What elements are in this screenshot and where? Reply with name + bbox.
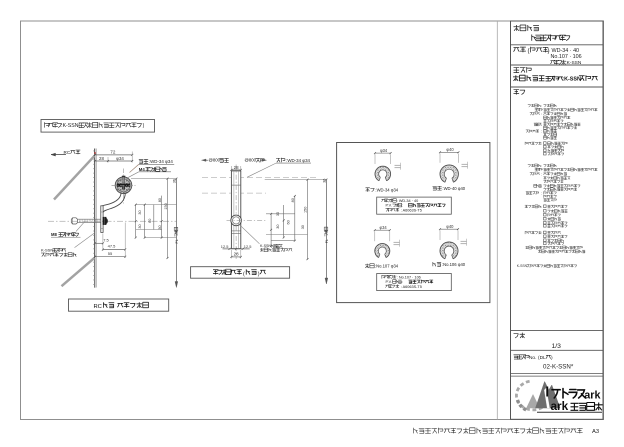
logo company name atlas-ark: [552, 390, 560, 398]
svg-text::: :: [541, 205, 542, 209]
handrail centerline dashed lower: [202, 192, 266, 194]
bracket saddle dark bar: [117, 184, 130, 187]
svg-text:ark: ark: [551, 399, 569, 413]
spec color checklist made-to-order: [544, 231, 547, 234]
svg-text:30: 30: [138, 210, 142, 214]
svg-text:): ): [548, 47, 550, 54]
saddle lower lug: [122, 187, 125, 190]
svg-text::: :: [541, 142, 542, 146]
svg-text:28: 28: [99, 156, 104, 161]
svg-text:28: 28: [234, 252, 239, 257]
svg-text::: :: [541, 172, 542, 176]
svg-text:φ34: φ34: [116, 156, 124, 161]
logo A mountain: [536, 382, 561, 409]
svg-text:02-K-SSN*: 02-K-SSN*: [543, 364, 574, 371]
center view title box: bracket front view: [191, 267, 290, 279]
svg-text::WD-34 φ34: :WD-34 φ34: [286, 158, 310, 163]
left view title box: RC shitaji installation section: [69, 299, 169, 311]
svg-text:P.V.: P.V.: [386, 204, 392, 208]
svg-text:(: (: [243, 272, 245, 278]
dim 72 top: [95, 154, 132, 156]
svg-text::: :: [541, 112, 542, 116]
RC shitaji label with arrow: [51, 154, 66, 156]
svg-text:30: 30: [276, 224, 280, 228]
svg-text:K-SSN: K-SSN: [260, 244, 271, 248]
leader label: tesuri WD-34 dia34: [139, 159, 143, 163]
RC wall double line with ticks: [94, 149, 96, 288]
svg-text:RC: RC: [64, 150, 71, 155]
grip clip No.107: [375, 244, 390, 258]
FL level vertical dim with arrow (center view): [325, 180, 327, 283]
svg-text::: :: [541, 123, 542, 127]
svg-text::: :: [541, 191, 542, 195]
handrail flange circle (section): [116, 177, 132, 193]
grip clip No.106: [440, 242, 458, 259]
wall hatch stroke upper: [54, 156, 95, 200]
svg-text:150: 150: [304, 207, 308, 213]
file no row label: [514, 355, 519, 359]
center view leader label: tesuri WD-34 dia34: [276, 158, 280, 162]
svg-text:@800: @800: [245, 158, 257, 163]
svg-text:FL: FL: [175, 239, 179, 243]
svg-text:30: 30: [301, 225, 305, 229]
row2: hinban label: [514, 48, 520, 52]
dim 28 / dia34: [95, 160, 132, 162]
svg-text:30: 30: [138, 224, 142, 228]
svg-text:150: 150: [164, 203, 168, 209]
svg-text:72: 72: [110, 150, 116, 155]
title block outer box: [511, 21, 604, 419]
svg-text:28: 28: [234, 165, 239, 170]
logo underline: [537, 411, 602, 413]
svg-text:K-SSN: K-SSN: [517, 264, 528, 268]
handrail centerline dashed upper: [202, 177, 316, 179]
FL level vertical dim with arrow (left view): [175, 179, 177, 286]
title block row dividers: [511, 44, 604, 46]
bracket wall plate: [101, 206, 103, 233]
wall hatch stroke lower: [62, 258, 95, 286]
left view right-side dimension stack: [131, 178, 176, 180]
bracket arm curves: [102, 193, 121, 206]
svg-text:80: 80: [291, 198, 295, 202]
logo small light triangle: [527, 395, 540, 409]
mount hole circle: [231, 215, 242, 226]
anchor bolt shaft with threads: [78, 218, 101, 220]
svg-text:A3: A3: [592, 429, 599, 435]
center view right-side dimension stack: [265, 179, 327, 181]
svg-text:36: 36: [172, 179, 176, 183]
bottom note text: [414, 428, 418, 434]
svg-text::K-SSN(: :K-SSN(: [61, 123, 80, 129]
svg-text:No.107 · 106: No.107 · 106: [551, 54, 582, 60]
left view: bracket name label box: [41, 120, 155, 133]
title row: product category value (katakana): [532, 35, 536, 41]
flange centerlines: [123, 169, 125, 204]
svg-text::: :: [541, 184, 542, 188]
svg-text:M4: M4: [139, 167, 146, 172]
svg-text:No.: No.: [529, 355, 536, 361]
svg-text::WD-34 φ34: :WD-34 φ34: [375, 188, 398, 193]
svg-text:60: 60: [287, 220, 291, 224]
svg-text::K-SSN: :K-SSN: [562, 77, 581, 83]
svg-text::No.107 φ34: :No.107 φ34: [375, 264, 399, 269]
svg-text::: :: [541, 231, 542, 235]
svg-text:φ34: φ34: [380, 148, 388, 153]
grip clip WD-34: [375, 166, 391, 181]
scale row: shukushaku label: [514, 334, 519, 338]
spec text block: [528, 105, 531, 107]
logo kabushiki-kaisha: [571, 403, 579, 410]
svg-text:7.5: 7.5: [103, 238, 109, 243]
leader to K-SSN label (center view): [239, 224, 260, 244]
svg-text:1/3: 1/3: [552, 343, 562, 350]
clip label WD-34: [366, 188, 370, 192]
svg-text:12.5: 12.5: [244, 244, 252, 249]
anchor bolt hex head: [71, 218, 77, 224]
row4: shiyou (spec) label: [514, 90, 520, 95]
spec color checklist standard: [544, 205, 547, 208]
svg-text::K-SSN: :K-SSN: [565, 60, 582, 66]
row3: zumen-mei label: [514, 68, 520, 73]
svg-text:K-SSN: K-SSN: [41, 248, 53, 253]
svg-text:36: 36: [322, 179, 326, 183]
spec block 2: [528, 165, 531, 167]
svg-text:M8: M8: [51, 232, 57, 237]
logo ark text: [546, 387, 548, 397]
svg-text:): ): [143, 123, 145, 129]
logo gear dashed arc: [516, 381, 548, 410]
svg-text:12.5: 12.5: [221, 244, 229, 249]
svg-text:30: 30: [276, 212, 280, 216]
svg-text:47.5: 47.5: [108, 244, 117, 249]
bracket body front view: [231, 171, 240, 249]
svg-text:: No.107 · 106: : No.107 · 106: [397, 275, 421, 279]
svg-text::No.106 φ40: :No.106 φ40: [442, 262, 466, 267]
parts spec box lower: [377, 274, 452, 291]
hole horizontal centerline: [227, 219, 267, 221]
grip clip WD-40: [440, 165, 458, 182]
clip label No.107: [365, 264, 369, 268]
svg-text:30: 30: [158, 225, 162, 229]
svg-text::: :: [402, 280, 403, 284]
svg-text:(DL: (DL: [538, 355, 546, 361]
svg-text:55: 55: [108, 251, 113, 256]
grip parts box frame: [337, 143, 490, 303]
svg-text::: :: [402, 204, 403, 208]
clip label No.106: [433, 262, 436, 266]
svg-text:: A6063S-T5: : A6063S-T5: [401, 208, 422, 212]
row3 value: drawing title: [513, 75, 519, 81]
screw stem above saddle: [123, 177, 125, 184]
svg-text:φ34: φ34: [379, 225, 387, 230]
spec color list 1: [544, 142, 547, 145]
spec note lines: [525, 246, 528, 249]
svg-text:: WD-34 · 40: : WD-34 · 40: [397, 199, 419, 203]
svg-text::WD-34 φ34: :WD-34 φ34: [149, 159, 173, 164]
divider between drawing area and title block: [496, 21, 498, 420]
nut at plate (dark): [103, 217, 107, 225]
parts spec box upper: [377, 197, 452, 214]
svg-text:@800: @800: [209, 158, 221, 163]
clip label WD-40: [433, 186, 437, 190]
bolt centerline: [48, 220, 177, 222]
svg-text:FL: FL: [325, 239, 329, 243]
center view: @800 pitch labels with arrows: [202, 159, 206, 161]
svg-text:φ40: φ40: [446, 224, 454, 229]
svg-text:): ): [258, 272, 260, 278]
svg-text:60: 60: [148, 219, 152, 223]
svg-text:φ40: φ40: [446, 147, 454, 152]
svg-text:RC: RC: [94, 304, 102, 310]
svg-text:ark: ark: [584, 389, 601, 401]
svg-text:80: 80: [158, 198, 162, 202]
title row: shohin-kubun label: [514, 25, 520, 31]
svg-text::: :: [541, 130, 542, 134]
body vertical centerline: [235, 165, 237, 260]
svg-text:P.V.: P.V.: [386, 280, 392, 284]
svg-text:: A6063S-T5: : A6063S-T5: [401, 285, 422, 289]
svg-text::WD-40 φ40: :WD-40 φ40: [442, 186, 465, 191]
